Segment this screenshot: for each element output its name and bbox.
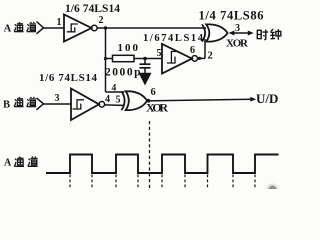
junction U2 output (198, 57, 201, 60)
svg-text:100: 100 (118, 42, 139, 54)
wire XOR U5 output pin6 to U/D (147, 99, 251, 101)
waveform edge dashed ticks (70, 175, 255, 189)
svg-text:5: 5 (157, 48, 162, 59)
wire node2 vertical drop (105, 28, 107, 92)
node B input terminal chevron (37, 98, 44, 110)
wire A input to inverter U1 pin1 (44, 27, 65, 29)
hysteresis symbol U2 (167, 52, 178, 64)
wire node2 branch to resistor R1 (106, 58, 113, 60)
node A input terminal chevron (37, 22, 44, 34)
svg-text:1: 1 (57, 17, 62, 28)
inverter U2 (1/6 74LS14, delay) (162, 44, 198, 74)
svg-text:A: A (4, 158, 12, 169)
wire node2 to bottom XOR input pin4 (106, 91, 125, 93)
wire B input to inverter U4 pin3 (44, 103, 72, 105)
svg-text:2: 2 (208, 51, 213, 62)
svg-text:XOR: XOR (226, 38, 249, 50)
arrowhead left on clock wire (229, 31, 235, 36)
wire U2 output pin6 to vertical riser (197, 57, 205, 59)
resistor R1 100 (113, 55, 135, 61)
svg-text:2: 2 (99, 15, 104, 26)
svg-text:6: 6 (151, 87, 156, 98)
svg-text:B: B (3, 100, 10, 111)
svg-text:4: 4 (112, 84, 117, 94)
capacitor C1 2000p plates (140, 64, 151, 68)
svg-text:4: 4 (105, 94, 110, 105)
svg-text:3: 3 (235, 23, 240, 34)
wire node2 from U1 output to XOR U3 input1 (97, 27, 206, 29)
svg-text:1/4 74LS86: 1/4 74LS86 (199, 8, 264, 22)
svg-text:6: 6 (190, 45, 195, 56)
svg-text:U/D: U/D (256, 91, 278, 106)
arrowhead right on clock wire (248, 31, 254, 36)
junction U5 output (147, 99, 151, 103)
XOR gate U3 (1/4 74LS86, clock) (202, 24, 228, 41)
wire U4 output pin4 to XOR U5 pin5 (105, 104, 123, 107)
hysteresis symbol U1 (67, 24, 78, 32)
svg-text:2000p: 2000p (105, 67, 141, 79)
hysteresis symbol U4 (73, 100, 85, 109)
dashed timing reference line (149, 121, 151, 189)
junction node 2 (104, 26, 107, 29)
waveform A-channel square wave (46, 155, 279, 174)
svg-text:A: A (4, 24, 12, 35)
svg-text:1/6 74LS14: 1/6 74LS14 (65, 3, 120, 15)
arrowhead on U/D wire (250, 97, 256, 102)
net label clock: 时钟 (257, 30, 268, 40)
wire resistor R1 to inverter U2 pin5 (134, 58, 162, 60)
junction resistor branch (104, 57, 107, 60)
XOR gate U5 (1/4 74LS86, U/D) (122, 91, 148, 110)
junction capacitor node (143, 57, 147, 61)
wire capacitor stem top (144, 59, 146, 64)
wire capacitor stem bottom (144, 68, 146, 73)
wire riser to XOR U3 input pin2 (204, 39, 206, 58)
wire XOR U3 output pin3 (231, 32, 250, 34)
svg-text:3: 3 (55, 93, 60, 104)
ground symbol (solid arrow) (139, 73, 152, 86)
svg-text:5: 5 (116, 95, 121, 106)
svg-text:XOR: XOR (146, 101, 168, 115)
inverter U4 (1/6 74LS14, B channel) (71, 89, 105, 121)
svg-text:1/6 74LS14: 1/6 74LS14 (39, 72, 98, 84)
inverter U1 (1/6 74LS14, A channel) (64, 15, 97, 42)
scan smudge bottom right (269, 186, 277, 194)
